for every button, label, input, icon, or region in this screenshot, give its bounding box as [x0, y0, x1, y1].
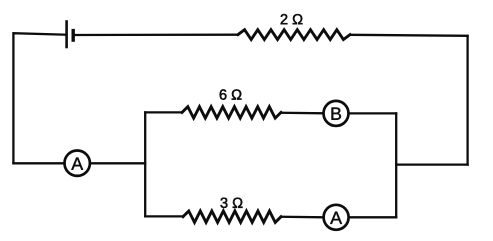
label: resistor R1 value 2 ohm — [281, 14, 303, 24]
wire: battery to resistor R1 — [75, 34, 238, 37]
meter A2 circle — [324, 205, 349, 230]
wire: left vertical of parallel section — [144, 112, 146, 216]
wire: R1 to top-right corner — [350, 35, 468, 36]
wire: bottom branch lead to resistor R3 — [145, 215, 183, 217]
resistor R1 2 ohm zigzag — [238, 30, 350, 40]
resistor R2 6 ohm zigzag — [182, 107, 281, 118]
wire: R2 to meter B — [281, 112, 323, 115]
wire: left main horizontal to ammeter A1 — [13, 162, 64, 164]
wire: meter B to right vertical of parallel section — [349, 112, 396, 114]
wire: far right vertical — [466, 36, 468, 165]
meter B circle — [324, 101, 349, 126]
resistor R3 3 ohm zigzag — [183, 211, 281, 222]
ammeter A1 circle — [65, 151, 90, 176]
wire: ammeter A1 to parallel-section left node — [90, 162, 145, 164]
battery cell V1: long plate — [65, 22, 68, 48]
label: ammeter A1 letter A — [71, 158, 83, 170]
battery cell V1: short thick plate — [71, 31, 74, 40]
wire: mid-right horizontal to parallel-section node — [396, 163, 467, 165]
wire: right vertical of parallel section — [395, 113, 397, 217]
label: meter B letter B — [332, 108, 341, 120]
wire: top branch lead to resistor R2 — [145, 111, 182, 113]
label: resistor R2 value 6 ohm — [220, 89, 242, 99]
wire: meter A2 to right vertical of parallel section — [349, 216, 396, 218]
label: resistor R3 value 3 ohm — [221, 198, 243, 208]
wire: left vertical and top-left horizontal to battery — [13, 33, 66, 163]
wire: R3 to meter A2 — [281, 216, 323, 219]
label: meter A2 letter A — [330, 212, 342, 224]
